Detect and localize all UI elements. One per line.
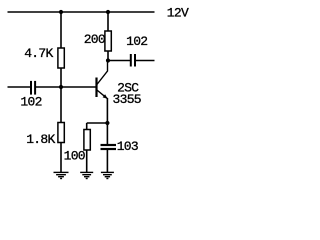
wire: C 103 to ground bbox=[106, 150, 108, 172]
svg-text:200: 200 bbox=[84, 32, 105, 47]
svg-text:100: 100 bbox=[64, 149, 85, 164]
node junction top rail / R 4.7K bbox=[59, 10, 63, 14]
emitter vertical bbox=[106, 98, 108, 123]
svg-text:4.7K: 4.7K bbox=[24, 46, 53, 61]
ground (R 1.8K) bbox=[54, 172, 69, 178]
base bar bbox=[95, 78, 97, 98]
ground (C 103) bbox=[101, 172, 114, 178]
resistor 4.7K bbox=[58, 48, 64, 68]
svg-text:103: 103 bbox=[117, 139, 138, 154]
transistor Q1 2SC3355 bbox=[97, 61, 141, 124]
wire: input line left segment bbox=[8, 86, 31, 88]
ground (R 100) bbox=[80, 172, 93, 178]
capacitor 102 (input) bbox=[30, 81, 32, 95]
wire: collector node to output cap bbox=[108, 60, 130, 62]
wire: R 1.8K to ground bbox=[60, 143, 62, 173]
svg-text:12V: 12V bbox=[167, 5, 189, 20]
svg-text:102: 102 bbox=[20, 95, 41, 110]
emitter arrowhead bbox=[103, 94, 108, 99]
resistor 1.8K bbox=[58, 123, 64, 143]
node junction collector / output bbox=[106, 58, 110, 62]
resistor 200 bbox=[105, 31, 111, 51]
wire: base node to R 1.8K bbox=[60, 87, 62, 123]
svg-text:1.8K: 1.8K bbox=[26, 132, 55, 147]
collector lead bbox=[97, 61, 108, 85]
wire: rail to R 200 top bbox=[107, 12, 109, 32]
wire: R 4.7K bottom to base node bbox=[60, 68, 62, 87]
wire: +12V top rail bbox=[8, 11, 155, 13]
wire: input cap to transistor base bbox=[36, 86, 96, 88]
wire: emitter node left to R 100 bbox=[87, 122, 108, 124]
emitter lead bbox=[97, 90, 107, 98]
node junction base / bias divider bbox=[59, 85, 63, 89]
wire: output line bbox=[136, 60, 155, 62]
wire: rail to R 4.7K top bbox=[60, 12, 62, 49]
capacitor 102 (output) bbox=[130, 54, 132, 67]
node junction emitter bbox=[105, 121, 109, 125]
wire: R 200 bottom to collector node bbox=[107, 51, 109, 61]
wire: emitter node to C 103 bbox=[106, 123, 108, 144]
wire: R 100 to ground bbox=[86, 150, 88, 172]
svg-text:102: 102 bbox=[126, 34, 147, 49]
node junction top rail / R 200 bbox=[106, 10, 110, 14]
svg-text:3355: 3355 bbox=[113, 92, 141, 107]
capacitor 103 (bypass) bbox=[101, 144, 117, 146]
resistor 100 bbox=[84, 130, 90, 151]
wire: down to R 100 bbox=[86, 123, 88, 130]
